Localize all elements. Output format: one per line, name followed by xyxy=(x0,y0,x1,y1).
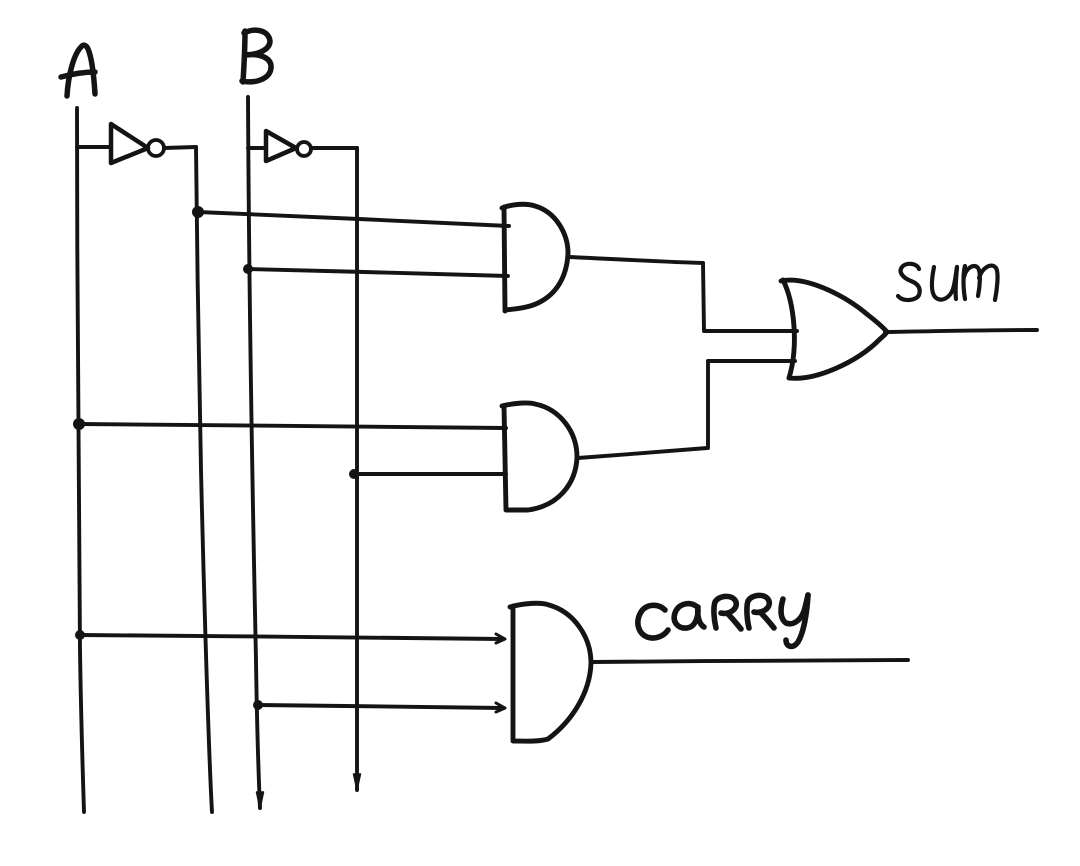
arrowhead at bottom of wire B xyxy=(257,792,264,809)
and-gate U4 (middle) xyxy=(502,403,577,510)
wire: corner down to OR input level xyxy=(703,263,704,331)
node: junction on A (to AND U5) xyxy=(75,630,85,640)
node: junction on B (to AND U5) xyxy=(253,700,263,710)
node: junction on A (to AND U4) xyxy=(73,418,85,430)
wire: B' junction to AND U4 lower input xyxy=(354,472,506,476)
arrowhead at U5 upper input xyxy=(496,634,505,643)
inverter U1 bubble xyxy=(148,140,164,156)
wire A' (vertical line, NOT-A output) xyxy=(196,147,212,812)
wire: into OR U6 lower input xyxy=(708,359,795,363)
wire: A to inverter input xyxy=(77,145,110,149)
wire B' (vertical line, NOT-B output) xyxy=(355,148,359,790)
wire: B junction to AND U3 lower input xyxy=(248,269,508,276)
wire: A junction to AND U5 upper input xyxy=(80,635,503,639)
wire: carry output xyxy=(592,660,908,662)
input A label xyxy=(61,45,95,96)
wire: into OR U6 upper input xyxy=(704,329,797,333)
and-gate U5 (carry) xyxy=(510,603,591,741)
inverter U1 (NOT A) triangle xyxy=(111,124,148,163)
node: junction on B' xyxy=(349,469,359,479)
wire A (vertical input line A) xyxy=(77,108,84,812)
or-gate U6 (sum) xyxy=(781,280,889,378)
label sum xyxy=(898,264,998,300)
wire: sum output xyxy=(889,330,1037,332)
wire: inverter U2 output to corner xyxy=(311,146,357,150)
wire: inverter U1 output to corner xyxy=(164,147,196,148)
wire: U3 output to corner xyxy=(570,257,703,263)
wire: A junction to AND U4 upper input xyxy=(79,424,506,428)
input B label xyxy=(242,30,271,82)
node: junction on B xyxy=(243,264,253,274)
and-gate U3 (top) xyxy=(502,204,568,311)
node: junction on A' xyxy=(192,206,204,218)
label carry xyxy=(638,595,808,646)
inverter U2 bubble xyxy=(297,142,311,156)
wire: B junction to AND U5 lower input xyxy=(258,705,503,708)
wire: A' junction to AND U3 upper input xyxy=(198,212,509,226)
wire: U4 output up-right to corner xyxy=(578,448,707,458)
wire B (vertical input line B) xyxy=(248,97,260,808)
wire: B to inverter input xyxy=(248,146,266,150)
inverter U2 (NOT B) triangle xyxy=(266,131,296,161)
arrowhead at bottom of wire B' xyxy=(354,774,361,790)
wire: corner up to OR lower input level xyxy=(706,361,710,448)
arrowhead at U5 lower input xyxy=(496,703,505,712)
